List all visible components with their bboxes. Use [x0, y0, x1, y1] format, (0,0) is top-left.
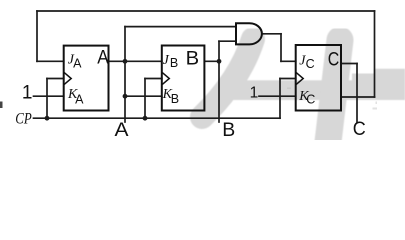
flip-flop U3 (C) body: [296, 45, 341, 111]
flip-flop U1 clock wedge: [64, 73, 71, 85]
flip-flop U3 clock wedge: [296, 73, 303, 85]
wire to J input of FF A: [37, 60, 64, 62]
wire clock branch FF B vertical: [144, 79, 146, 119]
wire clock branch FF C vertical: [279, 79, 281, 119]
wire QC output horizontal: [341, 63, 357, 65]
flip-flop U3 pin label JC: [299, 54, 314, 71]
svg-text:C: C: [306, 57, 315, 71]
wire AND gate output horizontal: [262, 33, 281, 35]
wire AND gate output vertical: [280, 34, 282, 62]
svg-text:1: 1: [22, 82, 33, 103]
flip-flop U1 pin label JA: [68, 53, 82, 71]
junction CP to FF A clock: [45, 116, 50, 121]
svg-text:C: C: [353, 118, 366, 140]
flip-flop U1 (A) body: [64, 46, 109, 111]
wire clock stub FF C: [280, 78, 296, 80]
wire rail A to AND gate upper input: [125, 26, 236, 28]
wire vertical branch of node A: [124, 27, 126, 122]
svg-text:C: C: [328, 49, 340, 71]
wire clock stub FF B: [145, 78, 162, 80]
flip-flop U1 pin label KA: [67, 87, 84, 107]
junction node A on QA wire: [123, 59, 128, 64]
AND gate G1: [236, 23, 262, 44]
svg-text:1: 1: [250, 85, 259, 102]
svg-text:B: B: [170, 56, 178, 70]
svg-text:J: J: [163, 53, 170, 68]
wire feedback right vertical: [374, 11, 376, 97]
wire to J input of FF C: [281, 60, 296, 62]
svg-text:A: A: [97, 47, 109, 69]
wire top feedback rail: [37, 10, 375, 12]
svg-text:CP: CP: [15, 111, 32, 128]
svg-text:B: B: [171, 92, 179, 106]
flip-flop U3 pin label KC: [298, 89, 315, 107]
wire QB output of FF B: [204, 60, 219, 62]
wire Q-bar output of FF C: [341, 96, 375, 98]
flip-flop U2 (B) body: [162, 46, 205, 111]
junction node B on QB wire: [217, 59, 222, 64]
wire clock stub FF A: [47, 78, 64, 80]
wire constant 1 to K input of FF A: [34, 95, 64, 97]
wire vertical branch of node B: [218, 41, 220, 122]
flip-flop U2 pin label JB: [163, 53, 179, 70]
flip-flop U2 pin label KB: [162, 87, 179, 106]
wire CP clock rail: [34, 117, 281, 119]
wire QA output to J input of FF B: [109, 60, 162, 62]
junction CP to FF B clock: [143, 116, 148, 121]
wire feedback left vertical: [36, 11, 38, 61]
wire node B to AND gate lower input: [219, 40, 236, 42]
svg-text:B: B: [186, 48, 200, 70]
junction node A on KB wire: [123, 94, 128, 99]
svg-text:C: C: [306, 93, 315, 107]
svg-text:A: A: [75, 93, 84, 107]
wire constant 1 to K input of FF C: [259, 95, 296, 97]
svg-text:B: B: [222, 119, 235, 140]
svg-text:A: A: [73, 56, 82, 70]
svg-text:A: A: [115, 119, 129, 140]
wire node A to K input of FF B: [125, 95, 162, 97]
flip-flop U2 clock wedge: [162, 73, 169, 85]
wire clock branch FF A vertical: [46, 79, 48, 119]
wire QC output vertical to node C: [356, 64, 358, 123]
